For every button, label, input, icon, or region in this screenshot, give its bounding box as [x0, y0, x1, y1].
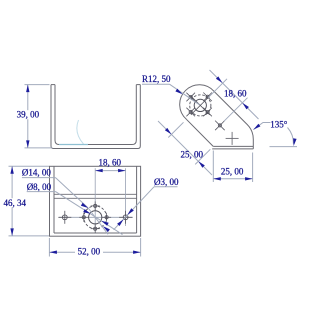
- plan view: bolt-circle hole marker 2: [94, 227, 97, 230]
- svg-text:18, 60: 18, 60: [224, 88, 247, 98]
- dimension 46.34: top extension line: [9, 165, 50, 167]
- dimension 52.00: dimension line: [49, 251, 75, 253]
- svg-text:46, 34: 46, 34: [4, 198, 27, 208]
- plan view: vertical centerline of center hole: [94, 168, 96, 231]
- dimension 39.00: dimension line: [27, 85, 29, 111]
- label Ø3.00: far-side arrowhead: [117, 219, 123, 226]
- plan view: flange bend line 1: [54, 193, 137, 195]
- side view: center hole circle (Ø8): [194, 99, 206, 111]
- side view: bolt-circle hole marker 1: [189, 95, 192, 98]
- dimension 135deg: horizontal extension line: [270, 146, 298, 148]
- dimension 25.00 (horizontal): left arrow: [213, 177, 221, 180]
- dimension 46.34: up arrow: [10, 166, 13, 174]
- dimension 25.00 (flange length): upper arrow: [165, 128, 172, 134]
- dimension 39.00: bottom extension line: [25, 147, 53, 149]
- svg-text:52, 00: 52, 00: [78, 247, 101, 257]
- dimension 18.60 (side): extension line from flange center: [208, 79, 227, 98]
- dimension 18.60 (plan): left arrow: [95, 169, 103, 172]
- svg-text:39, 00: 39, 00: [17, 110, 40, 120]
- dimension 25.00 (flange length): extension line 2: [195, 149, 210, 164]
- plan view: center hole circle (Ø8): [89, 211, 102, 224]
- label Ø8.00: line through circle: [91, 214, 123, 235]
- svg-text:25, 00: 25, 00: [180, 149, 203, 159]
- watermark faint arc: [77, 120, 84, 144]
- plan view: bolt-circle hole marker 4: [105, 216, 108, 219]
- dimension 18.60 (plan): right arrow: [118, 169, 126, 172]
- side view: flange outline (rounded end + edges + bend + base): [180, 85, 254, 149]
- dimension 39.00: up arrow: [26, 85, 29, 93]
- side view: bolt-circle hole marker 3: [189, 110, 192, 113]
- label Ø8.00: far arrow: [101, 221, 108, 226]
- dimension 18.60 (side): extension line from small hole: [224, 98, 248, 122]
- plan view: bolt circle Ø14 dashed: [84, 206, 107, 229]
- front view: U-channel outer profile: [51, 85, 140, 149]
- label Ø14.00: leader line: [56, 178, 89, 208]
- dimension 25.00 (horizontal): right arrow: [245, 177, 253, 180]
- dimension 39.00: down arrow: [26, 140, 29, 148]
- side view: base plate bottom line: [212, 148, 253, 150]
- dimension 46.34: dimension line: [11, 166, 13, 198]
- dimension 46.34: bottom extension line: [9, 235, 50, 237]
- plan view: right bend tangent line: [136, 166, 138, 233]
- dimension R12.50: arrowhead: [175, 89, 182, 95]
- side view: bolt-circle hole marker 2: [206, 95, 209, 98]
- dimension 52.00: left extension line: [48, 238, 50, 257]
- side view: base plate top line: [213, 145, 253, 147]
- label Ø3.00: underline: [154, 186, 178, 188]
- label Ø3.00: arrowhead: [127, 208, 133, 215]
- dimension 52.00: left arrow: [49, 251, 57, 254]
- svg-text:135°: 135°: [270, 119, 288, 129]
- label Ø14.00: line through circle: [88, 208, 108, 234]
- dimension 52.00: right arrow: [133, 251, 141, 254]
- watermark tint on inner bottom line: [59, 144, 88, 146]
- plan view: horizontal centerline through holes: [59, 216, 133, 218]
- dimension R12.50: underline: [142, 83, 170, 85]
- dimension 18.60 (side): upper arrow: [216, 76, 223, 83]
- label Ø14.00: far arrow: [103, 226, 110, 232]
- dimension 135deg: arrow at base line: [293, 138, 296, 146]
- dimension 135deg: leader to flange edge: [253, 123, 270, 130]
- svg-text:18, 60: 18, 60: [99, 157, 122, 167]
- svg-text:Ø14, 00: Ø14, 00: [22, 168, 51, 178]
- dimension 18.60 (plan): dimension line: [95, 170, 125, 172]
- svg-text:Ø3, 00: Ø3, 00: [154, 177, 179, 187]
- side view: bolt circle Ø14 dashed: [190, 95, 211, 116]
- dimension 25.00 (horizontal): left extension line: [212, 151, 214, 183]
- side view: center hole X cross: [191, 96, 210, 115]
- dimension 25.00 (flange length): lower arrow: [198, 161, 205, 168]
- plan view: left small hole Ø3: [62, 215, 67, 220]
- label Ø8.00: near arrow: [83, 209, 91, 214]
- dimension 135deg: arc: [288, 128, 294, 144]
- plan view: right small hole Ø3: [123, 215, 128, 220]
- plan view: left bend tangent line: [53, 166, 55, 233]
- label Ø3.00: leader line: [114, 187, 154, 230]
- label Ø8.00: underline: [27, 191, 56, 193]
- plan view: vertical centerline of right hole: [125, 168, 127, 226]
- svg-text:Ø8, 00: Ø8, 00: [27, 182, 52, 192]
- label Ø14.00: near arrow: [81, 203, 88, 208]
- dimension 25.00 (flange length): extension line 1: [168, 122, 183, 137]
- svg-text:R12, 50: R12, 50: [142, 74, 171, 84]
- plan view: bolt-circle hole marker 3: [82, 216, 85, 219]
- front view: U-channel inner profile: [55, 85, 136, 145]
- dimension R12.50: leader line: [170, 84, 200, 105]
- label Ø8.00: leader line: [56, 192, 91, 214]
- plan view: flange bend line 2: [54, 197, 137, 199]
- dimension 18.60 (side): lower arrow: [242, 103, 249, 110]
- dimension 18.60 (side): dimension line: [210, 70, 259, 119]
- dimension 39.00: top extension line: [25, 84, 50, 86]
- dimension 52.00: right extension line: [140, 238, 142, 257]
- dimension 25.00 (flange length): dimension line: [158, 121, 212, 175]
- front view: right wall top cap: [136, 84, 140, 86]
- dimension 25.00 (horizontal): dimension line: [213, 178, 252, 180]
- front view: left wall top cap: [51, 84, 55, 86]
- side view: bend center mark +: [226, 137, 239, 139]
- dimension 135deg: arrow at flange edge: [253, 124, 260, 130]
- side view: bolt-circle hole marker 4: [206, 110, 209, 113]
- plan view: bolt-circle hole marker 1: [94, 204, 97, 207]
- plan view: outer rectangle: [50, 166, 141, 236]
- dimension 46.34: down arrow: [10, 228, 13, 236]
- dimension 25.00 (horizontal): right extension line: [252, 153, 254, 183]
- svg-text:25, 00: 25, 00: [221, 167, 244, 177]
- plan view: bottom inner line: [54, 232, 137, 234]
- side view: small hole marker on flange centerline: [218, 124, 221, 127]
- label Ø14.00: underline: [22, 177, 56, 179]
